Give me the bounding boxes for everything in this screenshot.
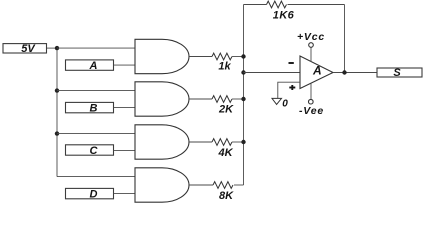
pin circle Vcc xyxy=(309,43,314,48)
svg-text:0: 0 xyxy=(282,99,288,110)
wire Vee pin xyxy=(310,84,312,100)
wire R2 to right bus xyxy=(232,98,244,100)
wire bus to gate G1 top input xyxy=(57,47,135,49)
wire right summing bus vertical xyxy=(243,5,245,186)
node input box C xyxy=(66,145,114,157)
svg-text:5V: 5V xyxy=(21,43,36,55)
plus sign non-inverting input xyxy=(289,85,295,90)
junction dot left bus row2 xyxy=(55,88,59,92)
wire feedback top right segment xyxy=(288,4,345,6)
wire R3 to right bus xyxy=(232,141,244,143)
minus sign inverting input xyxy=(289,62,294,64)
svg-text:-Vee: -Vee xyxy=(299,105,324,117)
junction dot right bus row1 xyxy=(241,54,245,58)
svg-text:A: A xyxy=(312,64,322,78)
wire non-inverting input stub to ground xyxy=(278,82,300,98)
wire gate G2 output to R2 xyxy=(189,98,212,100)
wire R1 to right bus xyxy=(232,56,244,58)
svg-text:1K6: 1K6 xyxy=(273,10,295,22)
wire box D to gate G4 xyxy=(114,193,136,195)
wire box B to gate G2 xyxy=(114,107,136,109)
AND gate G2 xyxy=(135,82,189,116)
resistor R1 1K xyxy=(212,53,232,73)
op-amp U1 xyxy=(300,56,333,89)
svg-text:B: B xyxy=(90,102,98,114)
wire op-amp output to S box xyxy=(333,72,377,74)
wire box A to gate G1 xyxy=(114,64,136,66)
wire feedback right vertical to output node xyxy=(344,5,346,73)
resistor R2 2K xyxy=(212,96,234,116)
wire Vcc pin xyxy=(310,47,312,62)
ground symbol xyxy=(272,98,282,104)
svg-text:8K: 8K xyxy=(219,190,234,202)
resistor R3 4K xyxy=(212,139,234,159)
wire inverting input xyxy=(244,72,301,74)
junction dot right bus row2 xyxy=(241,97,245,101)
wire left bus vertical xyxy=(56,48,58,177)
wire R4 to right bus xyxy=(234,184,244,186)
svg-text:C: C xyxy=(90,145,99,157)
svg-text:2K: 2K xyxy=(218,104,234,116)
svg-text:+Vcc: +Vcc xyxy=(297,31,325,43)
wire gate G3 output to R3 xyxy=(189,141,212,143)
resistor R4 8K xyxy=(213,182,234,202)
wire bus to gate G4 top input xyxy=(57,176,135,178)
svg-text:4K: 4K xyxy=(217,147,233,159)
junction dot right bus inverting input tap xyxy=(241,70,245,74)
resistor R5 1K6 feedback xyxy=(267,1,295,21)
wire bus to gate G3 top input xyxy=(57,133,135,135)
junction dot left bus row3 xyxy=(55,131,59,135)
node input box D xyxy=(66,188,114,200)
node 5V source box xyxy=(3,43,47,55)
node output box S xyxy=(377,67,422,79)
wire box C to gate G3 xyxy=(114,150,136,152)
wire bus to gate G2 top input xyxy=(57,90,135,92)
AND gate G1 xyxy=(135,39,189,73)
wire gate G1 output to R1 xyxy=(189,56,212,58)
wire feedback top left segment xyxy=(244,4,267,6)
node input box B xyxy=(66,102,114,114)
junction dot right bus row3 xyxy=(241,140,245,144)
wire gate G4 output to R4 xyxy=(189,184,213,186)
node input box A xyxy=(66,60,114,72)
svg-text:A: A xyxy=(89,60,98,72)
svg-text:1k: 1k xyxy=(218,61,231,73)
junction dot output node xyxy=(342,70,346,74)
AND gate G4 xyxy=(135,168,189,202)
wire 5V box to left bus xyxy=(47,47,57,49)
svg-text:S: S xyxy=(393,67,401,79)
pin circle Vee xyxy=(309,99,314,104)
junction dot left bus row1 xyxy=(55,46,59,50)
svg-text:D: D xyxy=(90,188,98,200)
AND gate G3 xyxy=(135,125,189,159)
